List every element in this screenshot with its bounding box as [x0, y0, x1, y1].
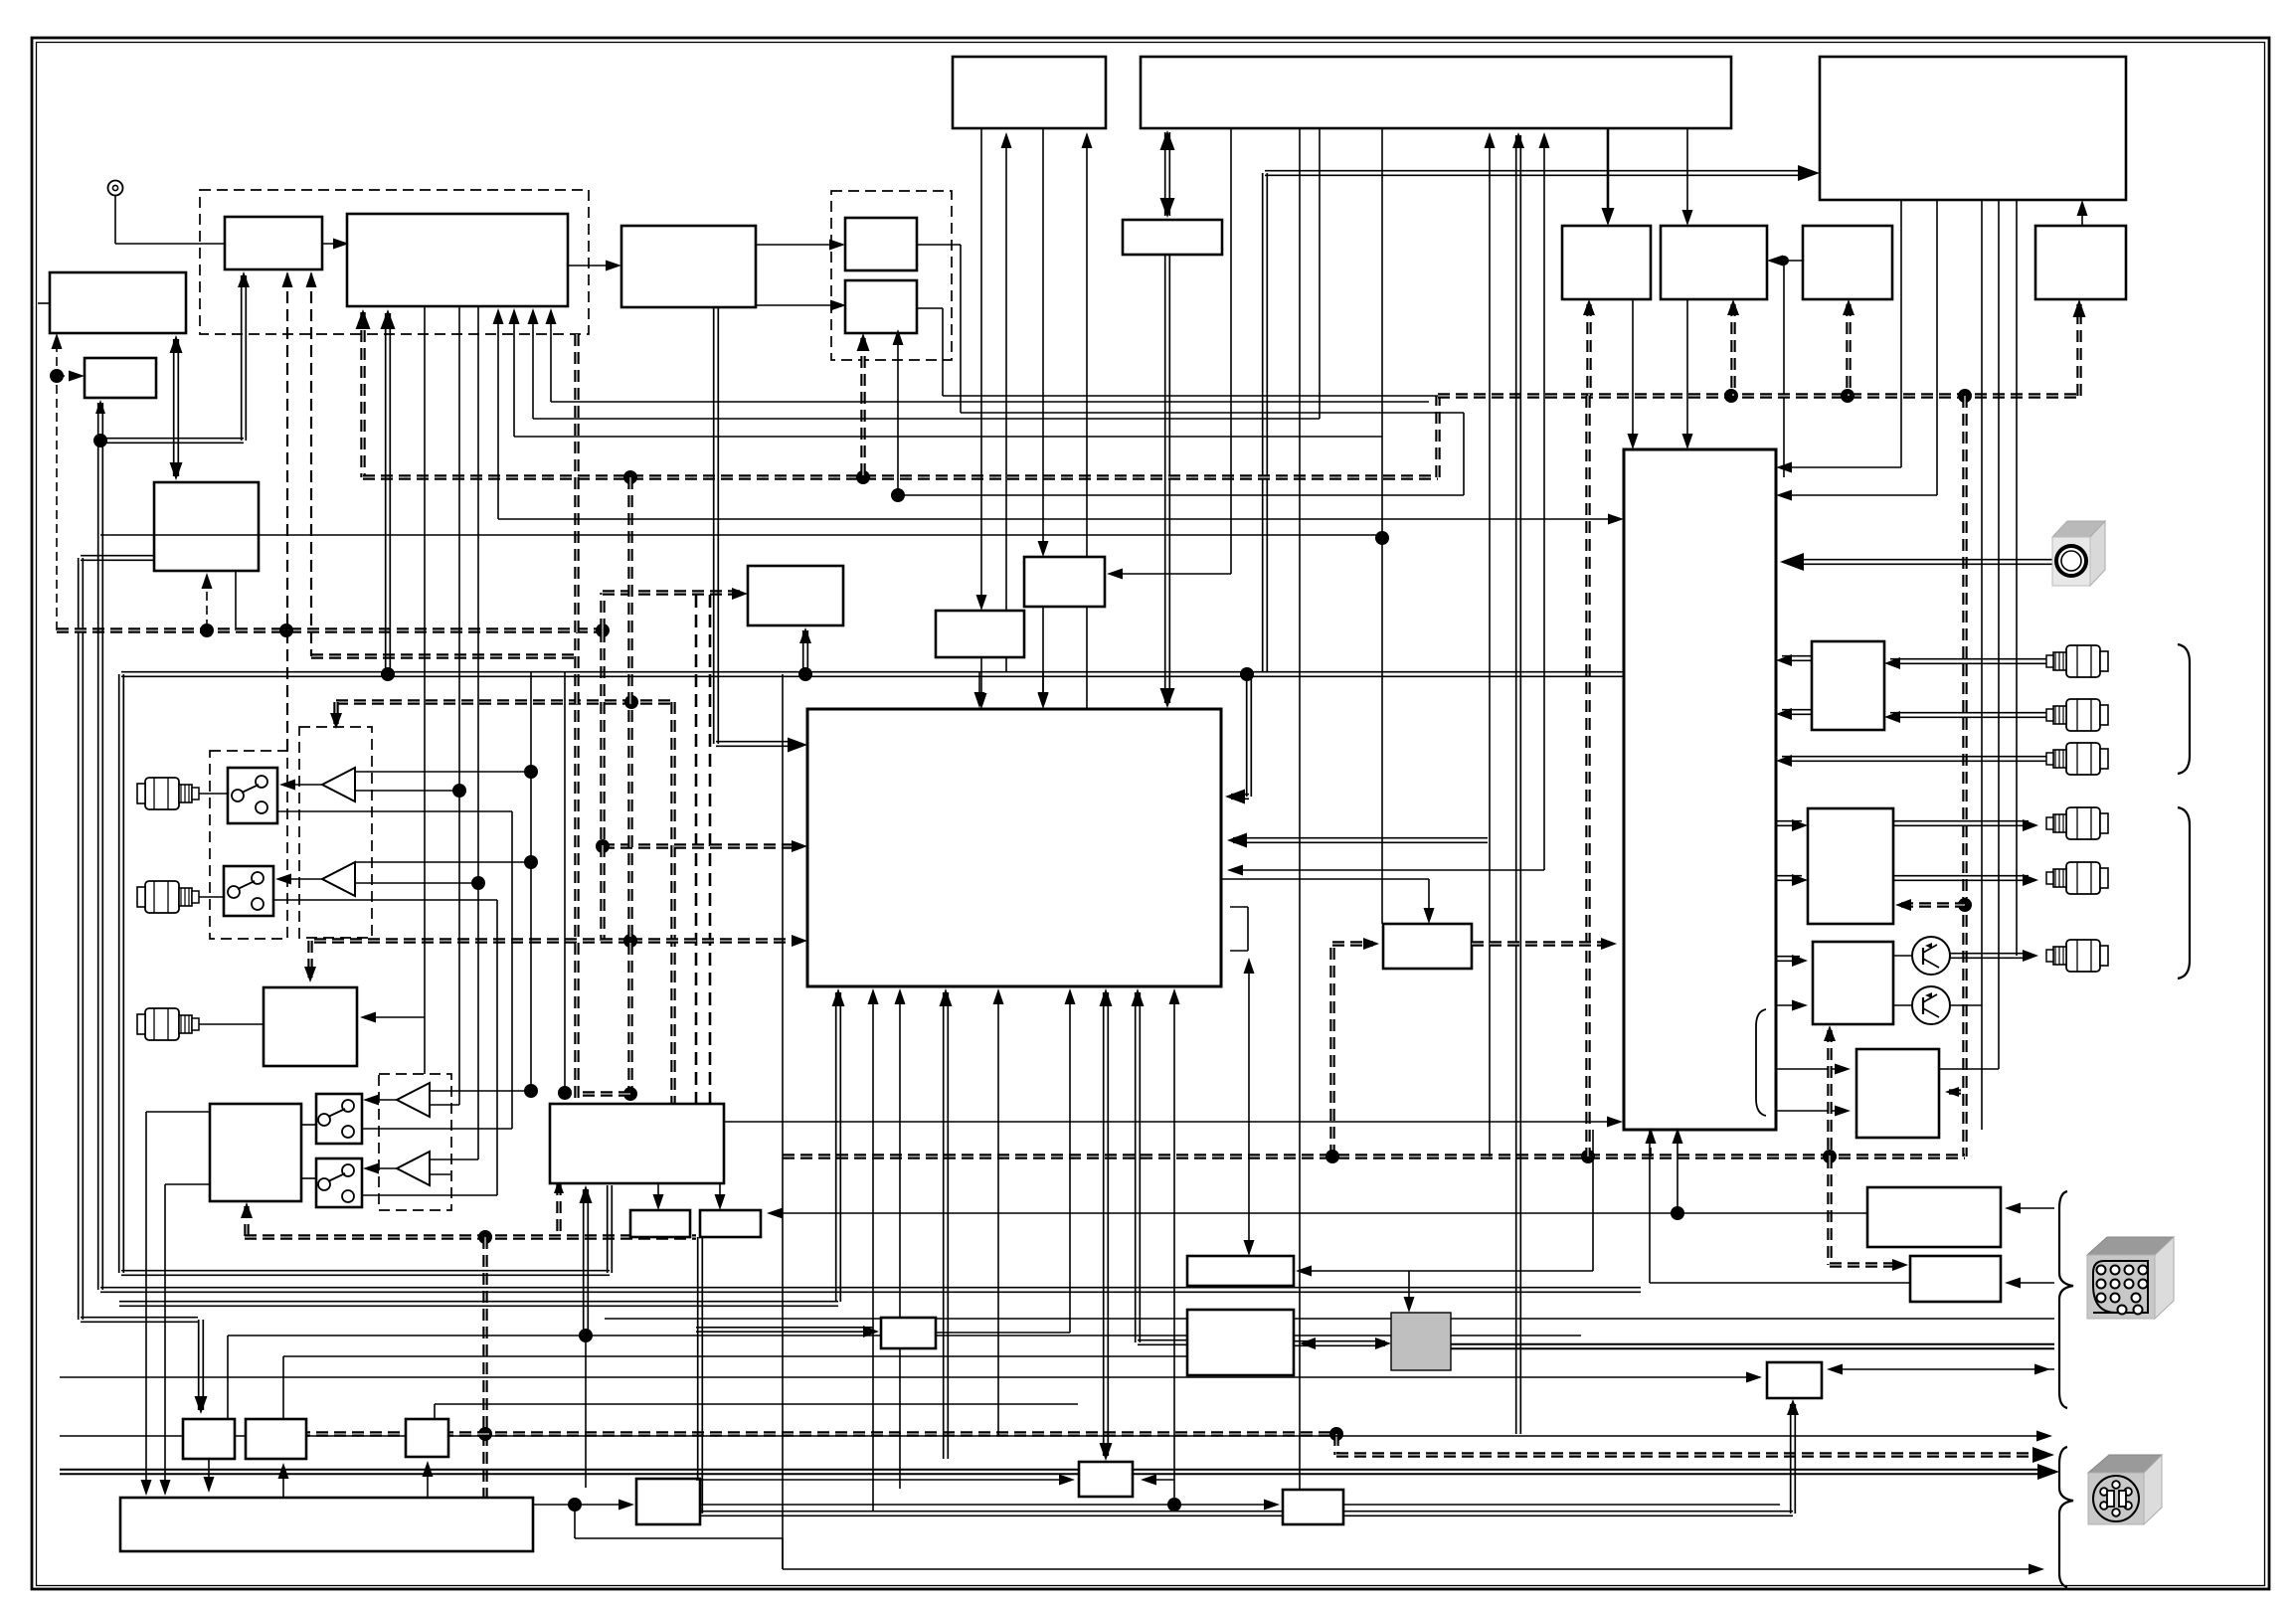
block remote in: [1910, 1256, 2001, 1302]
arrow bus into ram: [1892, 1259, 1908, 1271]
wire ps dashed up: [202, 573, 213, 628]
bus 1100 to dac: [577, 1091, 630, 1096]
wire v 427: [424, 306, 426, 1074]
block key matrix B: [1661, 226, 1767, 299]
wire hp in1: [1776, 955, 1808, 967]
wire v 462: [458, 306, 460, 1105]
wire deck amp1 in2: [430, 1104, 459, 1106]
wire front-end to IF: [322, 239, 349, 250]
wire memory down bus: [1160, 255, 1175, 708]
wire L down a: [81, 1318, 208, 1414]
wire headsel to trec: [724, 1117, 1623, 1128]
block reg B: [1283, 1490, 1343, 1524]
wire pt up: [1404, 1271, 1415, 1313]
wire timer up arrow: [52, 333, 63, 349]
wire sensor up: [423, 1461, 434, 1498]
wire dashed left vert: [56, 343, 58, 630]
wire IF to MPX: [568, 261, 621, 271]
junction audio main c: [1240, 667, 1254, 681]
block display/flu driver: [1820, 57, 2126, 200]
wire rca1 in: [1884, 657, 2047, 669]
block memory: [1123, 220, 1222, 255]
wire L 554: [546, 308, 1430, 402]
wire sel in2: [1776, 200, 1937, 501]
wire acin up: [1787, 1399, 1799, 1514]
wire v1390: [1381, 128, 1383, 924]
bus up 1597: [1585, 396, 1590, 1157]
wire sysconn left: [767, 1208, 1867, 1219]
bracket brace din2: [2059, 1447, 2073, 1587]
bus audio main: [119, 666, 1647, 1276]
wire y1354 dbl: [1451, 1344, 2054, 1349]
wire regB out: [1344, 1504, 1780, 1506]
connector RCA in2: [137, 881, 199, 913]
transistor Q1: [1912, 937, 1950, 975]
wire L 517: [509, 308, 1383, 437]
wire hp amp up: [1824, 1025, 1836, 1157]
block phono eq: [264, 987, 357, 1066]
block key matrix A: [1562, 226, 1651, 299]
wire dsp right in2: [1227, 833, 1488, 848]
block deck sw2: [316, 1158, 362, 1207]
wire v588: [580, 1185, 593, 1488]
wire sysctl up1: [1001, 132, 1012, 672]
wire phono in: [360, 1012, 425, 1023]
wire dsp bracket: [1230, 907, 1248, 951]
wire cpu to B: [1682, 128, 1693, 226]
wire bundle h1295: [100, 1288, 1641, 1293]
block servo A: [183, 1419, 235, 1459]
block deck motor2: [700, 1210, 761, 1237]
wire recsel out2: [1776, 708, 1812, 720]
wire fl left: [1138, 1340, 1187, 1345]
connector RCA out5: [2046, 862, 2108, 894]
wire acin bottom: [698, 1237, 1793, 1515]
wire dsp bottom regA: [1100, 988, 1113, 1461]
dashed group rec switch: [210, 751, 287, 939]
wire motor2 up: [715, 1183, 726, 1210]
wire d2 101 up: [95, 400, 105, 441]
bus rec amp out: [1472, 938, 1617, 950]
arrow bus into standby: [2073, 299, 2086, 317]
wire L 501: [493, 308, 1625, 525]
connector RCA out2: [2046, 699, 2108, 731]
connector RCA out3: [2046, 743, 2108, 775]
wire regA in: [696, 1475, 1075, 1486]
wire dsp bottom 2: [940, 988, 953, 1459]
block mechanism: [120, 1498, 533, 1551]
wire dac in2: [1776, 874, 1808, 886]
wire dsp right in1: [1225, 674, 1251, 804]
wire A down: [1628, 299, 1639, 449]
wire deck amp2 in2: [430, 1173, 450, 1175]
wire deck amp1 in: [430, 672, 572, 1100]
bus vert 633: [627, 477, 632, 1094]
wire v534: [524, 672, 538, 1098]
wire cpu-memory bus: [1160, 130, 1175, 218]
junction bus clock 207: [200, 623, 214, 637]
wire timer left feed: [38, 302, 50, 304]
wire ps solid up: [235, 572, 237, 630]
junction servo2: [478, 1427, 492, 1441]
block power supply: [154, 482, 259, 571]
wire remote in r: [2005, 1278, 2054, 1289]
wire mech out: [533, 1500, 634, 1511]
block system control: [953, 57, 1106, 128]
junction d2 101: [93, 434, 107, 447]
arrow bus servo up: [554, 1179, 564, 1193]
bus clock horizontal: [57, 627, 603, 632]
wire relay from bus: [799, 627, 811, 672]
wire cpu to A: [1602, 128, 1615, 226]
bracket line group1: [2178, 644, 2190, 774]
bus mech down: [1336, 1434, 2054, 1463]
switch sw1 contacts: [232, 776, 267, 813]
block system connector: [1867, 1187, 2001, 1247]
arrow bus lower switch: [304, 967, 316, 982]
junction bus1163 b: [1823, 1150, 1837, 1163]
wire dsp bottom 4: [1065, 988, 1076, 1333]
wire y1326: [605, 1318, 2054, 1320]
arrow bus into IF: [356, 309, 371, 329]
block deck motor1: [630, 1210, 690, 1237]
wire dac in1: [1776, 819, 1808, 831]
wire disp2 right: [1296, 1130, 1593, 1277]
bus dashed v700: [695, 595, 698, 1157]
block main CPU: [1141, 57, 1731, 128]
block reg A: [1079, 1462, 1133, 1497]
wire q2 link: [1893, 1004, 1912, 1006]
junction lower switch: [623, 934, 637, 948]
wire antenna lead: [115, 196, 225, 244]
wire rca2 in: [1884, 711, 2047, 723]
arrow bus into relay: [732, 588, 748, 600]
wire recsel out1: [1776, 654, 1812, 666]
wire sw1 out: [277, 811, 512, 1129]
wire amp1 in2: [355, 784, 466, 798]
wire dsp right out: [1221, 879, 1435, 924]
bus switch feed: [336, 702, 673, 1157]
wire dsp bottom 842: [119, 988, 845, 1306]
block phones jack driver: [1856, 1049, 1939, 1138]
bus bottom long: [783, 1154, 1965, 1158]
wire rca3 lead: [199, 1023, 264, 1025]
bus dac ctl: [1895, 899, 1965, 911]
wire dsp bottom 0: [868, 988, 879, 1512]
wire tr to pj: [1776, 1064, 1851, 1117]
dashed group tuner: [200, 190, 589, 334]
block switch relay: [748, 566, 843, 625]
wire q2 out: [1950, 1004, 1982, 1006]
junction bus clock 288: [279, 623, 293, 637]
wire into dsp left1: [714, 307, 807, 753]
wire fl right: [1294, 1337, 1391, 1349]
bus spine 606: [600, 630, 605, 941]
block headphone amp: [1813, 942, 1893, 1024]
connector DIN multi: [2087, 1237, 2174, 1319]
wire motor1 up: [653, 1183, 664, 1210]
wire y498 long: [893, 329, 1465, 495]
junction audio main b: [798, 667, 812, 681]
wire dac out2: [1893, 874, 2038, 886]
wire dsp top a: [974, 672, 985, 708]
block audio selector IC: [1624, 449, 1776, 1130]
wire tr arrows: [1646, 1128, 1683, 1213]
junction audio main a: [381, 667, 395, 681]
bus branch keyB: [1843, 299, 1854, 396]
block clock: [85, 358, 156, 398]
block ac inlet: [1767, 1362, 1822, 1398]
bus branch keyA: [1727, 299, 1739, 396]
block input selector: [936, 611, 1024, 657]
wire v 481: [477, 306, 479, 1159]
wire disp v3: [1981, 200, 1983, 1130]
junction clock feed: [50, 369, 64, 383]
junction bus 633-1100: [623, 1087, 637, 1101]
wire rca3 in: [1776, 755, 2047, 767]
bracket brace din1: [2059, 1191, 2073, 1408]
wire clock-timer link: [170, 335, 183, 480]
wire d2 101 down: [98, 441, 103, 1290]
paren hp: [1756, 1009, 1766, 1116]
wire sel in1: [1776, 200, 1901, 473]
junction y538: [1375, 531, 1389, 545]
junction y498: [891, 488, 905, 502]
dashed group buffer amps: [299, 727, 372, 938]
block rec selector: [1812, 641, 1884, 730]
bus step right: [603, 593, 742, 630]
wire L down d: [435, 1404, 1078, 1419]
connector rotary knob: [2052, 521, 2105, 586]
op-amp deck1: [397, 1083, 430, 1117]
block power transformer: [1391, 1313, 1451, 1370]
block rec amp: [1383, 924, 1472, 969]
wire cpu v 1307: [1299, 128, 1301, 1490]
bus lower switch: [310, 941, 795, 978]
wire audio drop left: [381, 309, 396, 672]
bus branch keyA2: [1583, 299, 1595, 396]
wire ps left stub: [79, 556, 154, 1320]
wire sysctl up2: [1082, 132, 1093, 709]
block rec sw1: [228, 768, 277, 823]
bus servo: [245, 1234, 696, 1239]
junction bus mech: [1329, 1427, 1343, 1441]
wire evol arrow: [1107, 569, 1231, 580]
junction mech out: [568, 1498, 582, 1512]
block front-end: [225, 217, 322, 269]
op-amp deck2: [397, 1152, 430, 1185]
wire standby up: [2077, 200, 2088, 226]
antenna: [108, 181, 123, 196]
connector DIN round: [2088, 1455, 2162, 1524]
wire dac out1: [1893, 819, 2038, 831]
wire acsw out: [936, 1332, 1070, 1334]
wire pj in r: [1945, 1087, 1965, 1097]
block buffer L: [845, 218, 917, 270]
block display2: [1187, 1256, 1294, 1286]
wire hp in2: [1776, 1000, 1808, 1011]
bus servo vert up: [556, 1183, 561, 1237]
block ac switch: [881, 1318, 936, 1348]
block electronic volume: [1024, 557, 1105, 607]
wire dsp bottom 1: [895, 988, 906, 1489]
wire v787: [782, 674, 784, 1569]
block rec/play head sel: [550, 1104, 724, 1183]
switch deck sw2 contacts: [318, 1164, 354, 1202]
connector RCA in1: [137, 778, 199, 809]
wire bus into display: [1265, 165, 1820, 181]
wire mpx up arrows: [282, 271, 317, 751]
wire cpu up a: [1485, 132, 1496, 1157]
junction sysconn: [1671, 1206, 1684, 1220]
wire amp1 out: [279, 780, 322, 791]
op-amp buffer1: [322, 768, 355, 801]
bus branch pairB: [860, 338, 865, 477]
wire sysctl v2: [1038, 128, 1049, 709]
block standby: [2035, 226, 2126, 299]
wire encoder to B: [1767, 256, 1803, 478]
wire y538 long: [100, 534, 1382, 536]
wire dsp bottom fl: [1132, 988, 1145, 1342]
block servo B: [246, 1419, 306, 1459]
dashed group deck amps: [379, 1074, 451, 1210]
bus dsp left feed: [603, 840, 807, 852]
wire pairB out: [917, 308, 1438, 396]
switch sw2 contacts: [228, 872, 264, 910]
junction bus1163 a: [1581, 1150, 1595, 1163]
wire y1578: [783, 1564, 2044, 1575]
arrow bus into dsp2: [792, 935, 807, 947]
block DAC out: [1808, 808, 1893, 924]
wire cpu up b: [1512, 132, 1524, 1434]
wire L down b: [228, 1336, 1581, 1419]
dashed group buffer: [831, 191, 952, 360]
block fl tube: [1187, 1310, 1294, 1375]
wire MPX out L: [756, 240, 845, 251]
block mech control: [210, 1104, 301, 1201]
wire amp2 out: [275, 874, 322, 885]
wire acsw in: [696, 1326, 879, 1337]
bus branch 634 down: [627, 477, 632, 478]
connector RCA out6: [2046, 940, 2108, 972]
arrow bus switch: [330, 713, 342, 729]
wire dashed feed clock: [57, 371, 85, 382]
block IF/demod: [347, 214, 568, 306]
wire sysconn in: [2005, 1203, 2054, 1214]
connector RCA in3: [137, 1008, 199, 1040]
bus left end 1244: [244, 1206, 249, 1237]
bus dashed v580: [574, 334, 579, 1157]
bus vert right: [1962, 396, 1967, 1157]
junction dac ctl: [1958, 898, 1972, 912]
block encoder: [1803, 226, 1892, 299]
connector RCA out1: [2046, 645, 2108, 677]
connector RCA out4: [2046, 807, 2108, 839]
junction bus 1858: [1841, 389, 1854, 403]
wire mech link: [141, 1112, 211, 1496]
junction bus 605: [596, 623, 610, 637]
wire sysctl v1: [976, 128, 987, 709]
wire pairA out: [917, 245, 1464, 495]
wire servoB up: [278, 1463, 289, 1498]
wire dsp top b: [1038, 672, 1049, 708]
bus drop 1840: [1830, 1157, 1901, 1265]
wire bus riser: [1263, 173, 1268, 672]
junction dsp feed: [596, 839, 610, 853]
block buffer R: [845, 280, 917, 333]
block rec sw2: [224, 866, 273, 916]
wire L down c: [283, 1356, 1193, 1419]
wire acin l: [60, 1372, 1762, 1383]
wire B down: [1682, 299, 1693, 449]
wire rca1 lead: [199, 793, 228, 795]
wire q1 link: [1893, 955, 1912, 957]
block timer display: [50, 272, 186, 333]
bus dashed v714: [709, 595, 712, 1157]
transistor Q2: [1912, 986, 1950, 1024]
junction bus 634: [623, 470, 637, 484]
wire sw out1: [301, 1125, 512, 1195]
wire dsp right in3: [1227, 865, 1544, 876]
wire amp1 in: [355, 765, 538, 779]
wire cpu v 1238: [1230, 128, 1232, 574]
wire dsp bottom 1176: [1167, 988, 1181, 1512]
op-amp buffer2: [322, 862, 355, 896]
wire disp2 top: [1244, 958, 1255, 1256]
wire amp2 in: [355, 855, 538, 869]
wire motor out right: [700, 1500, 1280, 1511]
block DSP: [807, 709, 1221, 986]
block deck sw1: [316, 1094, 362, 1144]
bus control main left: [363, 304, 2079, 477]
bus y660 link: [311, 653, 577, 658]
wire d2 245: [100, 271, 250, 443]
wire L 536: [528, 128, 1321, 419]
junction bus 1976: [1958, 389, 1972, 403]
wire amp2 in2: [355, 876, 485, 890]
wire rca2 lead: [199, 896, 224, 898]
wire knob bus: [1780, 553, 2052, 571]
wire deck amp1 out: [363, 1095, 397, 1106]
wire deck amp2 in: [430, 1158, 478, 1160]
bracket line group2: [2178, 807, 2190, 979]
wire sw2 out: [273, 900, 497, 1195]
block sensor: [406, 1419, 448, 1457]
wire y1482 dbl: [60, 1464, 2059, 1480]
arrow bus pairB: [857, 333, 870, 351]
wire disp v4: [1939, 200, 1999, 1069]
wire bottom y1578: [575, 1505, 783, 1569]
junction 588: [579, 1329, 593, 1342]
wire regA in2b: [1141, 1475, 1174, 1486]
wire servoA down: [204, 1459, 215, 1493]
wire deck amp2 out: [363, 1163, 397, 1174]
junction bus 868: [856, 470, 870, 484]
wire disp v5: [2016, 200, 2018, 956]
arrow bus into sw-ctl: [241, 1202, 253, 1218]
wire MPX out R: [756, 300, 846, 311]
bus into rec amp: [1325, 938, 1379, 1163]
block MPX decoder: [621, 226, 756, 307]
block motor drive: [636, 1479, 700, 1524]
wire cpu up c: [1539, 132, 1550, 870]
junction bus 633-705: [624, 695, 638, 709]
bus servo drop: [482, 1237, 487, 1498]
wire q1 out: [1950, 950, 2038, 962]
wire acin r: [1827, 1364, 2054, 1375]
wire remote left: [1650, 1130, 1910, 1283]
junction bus servo: [478, 1230, 492, 1244]
